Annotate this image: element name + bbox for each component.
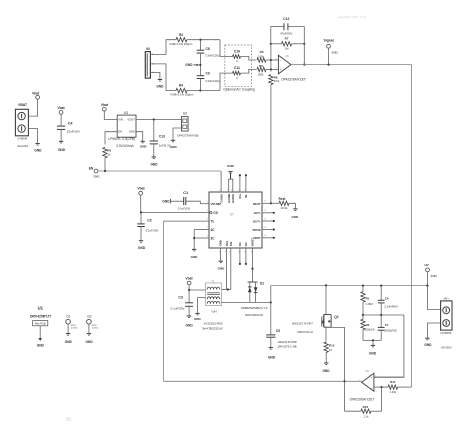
svg-text:GND: GND — [140, 145, 148, 149]
svg-text:C5: C5 — [276, 329, 280, 333]
svg-text:C11: C11 — [234, 66, 240, 70]
svg-text:OPA2376AIYZET: OPA2376AIYZET — [350, 398, 375, 402]
svg-text:600V/21mA: 600V/21mA — [297, 330, 313, 334]
svg-text:SW: SW — [229, 241, 233, 246]
svg-text:10: 10 — [329, 348, 333, 352]
svg-text:GND: GND — [156, 85, 164, 89]
svg-text:2.5mm: 2.5mm — [92, 327, 99, 329]
svg-text:OUT+: OUT+ — [253, 219, 261, 223]
svg-text:Rext: Rext — [279, 197, 287, 201]
svg-text:C6: C6 — [385, 296, 389, 300]
svg-text:C13: C13 — [159, 135, 165, 139]
svg-text:OUT-: OUT- — [254, 211, 261, 215]
svg-text:OPA2376AIYZET: OPA2376AIYZET — [281, 78, 306, 82]
svg-text:HV: HV — [425, 263, 429, 267]
svg-text:U1: U1 — [38, 306, 44, 311]
svg-text:GND: GND — [191, 255, 199, 259]
svg-text:100k: 100k — [258, 72, 264, 76]
svg-text:300V/300mW: 300V/300mW — [245, 313, 263, 317]
svg-text:5982: 5982 — [431, 274, 438, 278]
svg-text:Vbat: Vbat — [101, 103, 109, 107]
svg-text:GND: GND — [170, 145, 178, 149]
svg-text:0.1uF/16V: 0.1uF/16V — [146, 228, 159, 232]
svg-text:VINST: VINST — [251, 238, 255, 247]
svg-text:3.3V/100mA: 3.3V/100mA — [116, 144, 134, 148]
svg-text:Flex PCB: Flex PCB — [35, 322, 46, 326]
svg-text:0.1uF(1V): 0.1uF(1V) — [178, 206, 191, 210]
svg-text:+: + — [280, 68, 282, 72]
svg-text:4.99k 0.1% 25ppm: 4.99k 0.1% 25ppm — [170, 93, 194, 97]
svg-text:7uH: 7uH — [211, 310, 217, 314]
svg-text:R12: R12 — [363, 405, 369, 409]
svg-text:EN: EN — [89, 167, 94, 171]
svg-text:Vbat: Vbat — [32, 91, 40, 95]
svg-text:1.46k: 1.46k — [390, 390, 397, 394]
svg-text:Copyright © 2017, TI Inc: Copyright © 2017, TI Inc — [338, 15, 367, 19]
svg-text:1725656: 1725656 — [440, 331, 452, 335]
svg-text:R4: R4 — [179, 83, 183, 87]
svg-text:−: − — [371, 386, 373, 390]
svg-text:BSS127 N-FET: BSS127 N-FET — [292, 321, 313, 325]
svg-text:GND: GND — [227, 164, 235, 168]
svg-text:GND: GND — [194, 317, 202, 321]
svg-text:GND: GND — [58, 148, 66, 152]
svg-text:GND: GND — [322, 369, 330, 373]
svg-text:GND: GND — [34, 149, 42, 153]
svg-text:9A/1203: 9A/1203 — [17, 144, 28, 148]
svg-text:VBAT: VBAT — [18, 103, 28, 107]
svg-text:GND: GND — [291, 215, 299, 219]
svg-text:C10: C10 — [234, 50, 240, 54]
svg-text:IN+: IN+ — [238, 194, 242, 199]
svg-text:GND: GND — [150, 162, 158, 166]
svg-text:C8: C8 — [206, 47, 210, 51]
svg-text:2.5mm: 2.5mm — [71, 327, 78, 329]
svg-text:U2: U2 — [183, 111, 187, 115]
svg-text:GA/NO: GA/NO — [231, 193, 235, 203]
svg-text:REXT: REXT — [253, 202, 261, 206]
svg-text:2-406M: 2-406M — [18, 136, 28, 140]
svg-text:GND: GND — [37, 343, 45, 347]
svg-text:100uF/6.3V/X5R: 100uF/6.3V/X5R — [278, 340, 297, 344]
svg-text:GND: GND — [218, 266, 226, 270]
svg-text:JMK-0575-C-NB: JMK-0575-C-NB — [278, 344, 297, 348]
svg-text:C1: C1 — [183, 190, 189, 195]
svg-text:C7: C7 — [385, 323, 389, 327]
svg-text:0.1uF/35V: 0.1uF/35V — [171, 306, 185, 310]
svg-text:10uF/16V: 10uF/16V — [67, 129, 80, 133]
svg-text:1.46M: 1.46M — [365, 302, 373, 306]
svg-text:IN-: IN- — [244, 194, 248, 198]
svg-text:U7: U7 — [230, 213, 234, 217]
svg-text:NC: NC — [238, 242, 242, 246]
svg-text:EN: EN — [118, 130, 122, 134]
svg-text:PROE: PROE — [252, 228, 260, 232]
svg-text:GND: GND — [86, 340, 94, 344]
svg-text:Vbat: Vbat — [137, 187, 145, 191]
svg-text:GND: GND — [186, 323, 194, 327]
svg-text:R3: R3 — [179, 33, 183, 37]
svg-text:R5: R5 — [260, 50, 264, 54]
svg-text:OPA2376AIY(B): OPA2376AIY(B) — [177, 134, 199, 138]
svg-text:GND: GND — [162, 199, 170, 203]
svg-text:−: − — [280, 58, 282, 62]
svg-text:2200pF/50: 2200pF/50 — [384, 328, 397, 332]
svg-text:U3: U3 — [124, 111, 128, 115]
svg-text:R11: R11 — [390, 380, 396, 384]
svg-text:1M: 1M — [285, 47, 290, 51]
svg-text:5982: 5982 — [93, 175, 100, 179]
svg-text:AYZ2515-R03: AYZ2515-R03 — [204, 321, 223, 325]
svg-text:D1: D1 — [260, 281, 264, 285]
svg-text:Vbat: Vbat — [57, 106, 65, 110]
svg-text:6A*/25V: 6A*/25V — [441, 346, 452, 350]
svg-text:47pF/50V: 47pF/50V — [280, 32, 292, 36]
svg-text:MMBZ5250BLS-7-F: MMBZ5250BLS-7-F — [241, 306, 268, 310]
svg-text:C3: C3 — [178, 296, 183, 300]
svg-text:R7: R7 — [285, 37, 289, 41]
svg-text:R1: R1 — [366, 296, 370, 300]
svg-text:GND: GND — [424, 343, 432, 347]
svg-text:5982: 5982 — [332, 50, 339, 54]
svg-text:Signal: Signal — [324, 39, 334, 43]
svg-text:Vbat: Vbat — [185, 276, 193, 280]
svg-text:NC: NC — [244, 242, 248, 246]
svg-text:GND: GND — [65, 340, 73, 344]
svg-text:CA/NA: CA/NA — [219, 194, 223, 203]
svg-text:10.0k: 10.0k — [281, 206, 288, 210]
svg-text:1.1k: 1.1k — [363, 414, 369, 418]
svg-text:Optional AC Coupling: Optional AC Coupling — [223, 88, 255, 92]
svg-text:C9: C9 — [206, 72, 210, 76]
svg-text:HV+: HV+ — [444, 296, 450, 300]
svg-text:GND: GND — [268, 355, 276, 359]
svg-text:G2: G2 — [87, 314, 91, 318]
svg-text:2.2uF/400V: 2.2uF/400V — [384, 305, 398, 309]
svg-text:GND: GND — [138, 246, 146, 250]
svg-text:49.9: 49.9 — [274, 79, 280, 83]
svg-text:C12: C12 — [283, 17, 289, 21]
svg-text:3C: 3C — [211, 228, 216, 232]
svg-text:S# ATB3232UX: S# ATB3232UX — [202, 327, 223, 331]
svg-text:+: + — [371, 376, 373, 380]
svg-text:R2: R2 — [366, 323, 370, 327]
svg-text:3.3nF(C0G): 3.3nF(C0G) — [205, 54, 219, 58]
svg-text:GND: GND — [369, 352, 377, 356]
svg-text:3.3nF(C0G): 3.3nF(C0G) — [205, 79, 219, 83]
svg-text:LP5907L-3.3(CPB): LP5907L-3.3(CPB) — [108, 137, 135, 141]
svg-text:G1: G1 — [66, 314, 70, 318]
svg-text:VIN: VIN — [118, 118, 123, 122]
svg-text:TL: TL — [211, 220, 215, 224]
svg-text:CD: CD — [213, 211, 218, 215]
svg-text:1uF/6.3V: 1uF/6.3V — [159, 144, 171, 148]
svg-text:Q1: Q1 — [334, 315, 339, 319]
svg-text:DRV425RTJT: DRV425RTJT — [30, 314, 52, 318]
svg-text:3C: 3C — [211, 237, 216, 241]
svg-text:C2: C2 — [147, 218, 152, 222]
svg-text:GND: GND — [185, 63, 193, 67]
svg-text:GND: GND — [129, 130, 135, 134]
svg-text:102k/1%: 102k/1% — [365, 328, 376, 332]
svg-text:GND: GND — [219, 240, 223, 246]
svg-text:VOUT: VOUT — [127, 118, 135, 122]
svg-text:4.99k 0.1% 25ppm: 4.99k 0.1% 25ppm — [169, 42, 193, 46]
